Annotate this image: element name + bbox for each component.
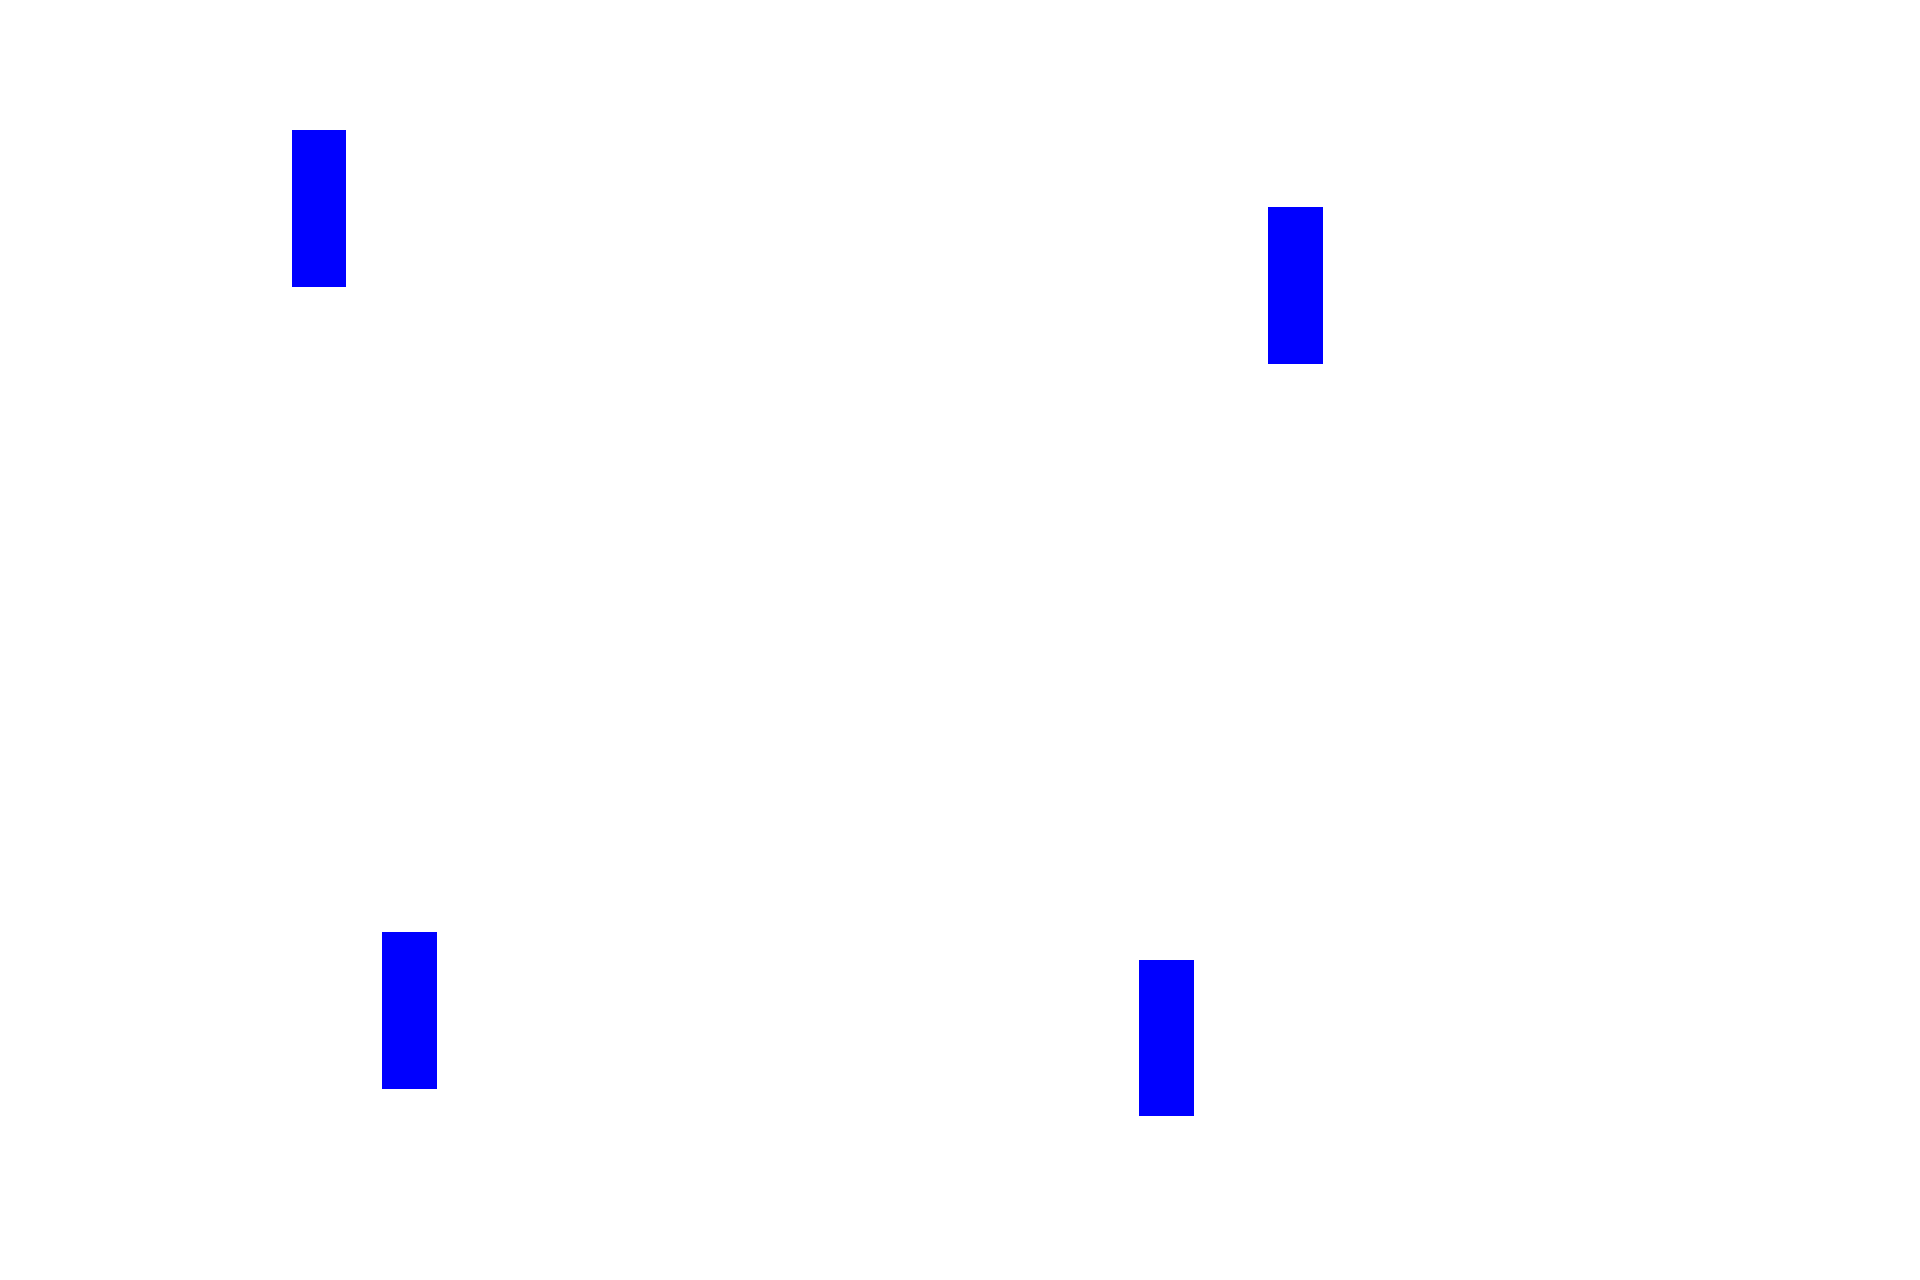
blue rectangle 1 (top-left): [292, 130, 346, 287]
blue rectangle 3 (bottom-left): [382, 932, 437, 1089]
blue rectangle 2 (top-right): [1268, 207, 1323, 364]
blue rectangle 4 (bottom-right): [1139, 960, 1194, 1116]
